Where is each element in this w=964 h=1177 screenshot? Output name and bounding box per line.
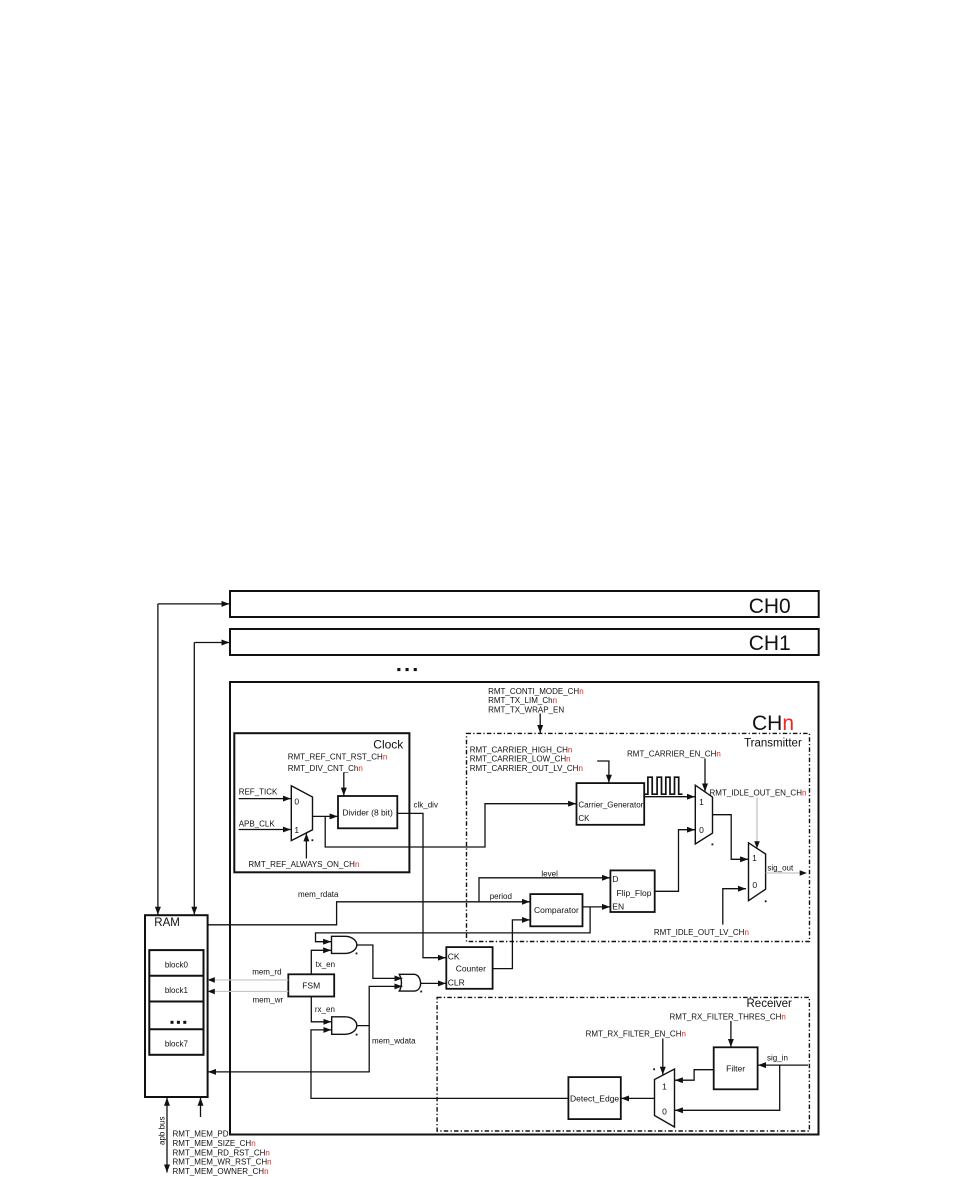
svg-text:CK: CK [448, 952, 460, 962]
svg-text:Detect_Edge: Detect_Edge [570, 1094, 619, 1104]
wire Flip_Flop out to carrier mux 0 [655, 830, 695, 892]
svg-text:FSM: FSM [302, 980, 320, 990]
wire Filter out to rx mux 1 [675, 1070, 714, 1081]
Counter box [446, 947, 492, 989]
wire idle out en (gray) into sig mux [754, 798, 760, 849]
RAM config arrow [200, 1098, 202, 1117]
wire div cnt config into Divider [343, 773, 345, 796]
Detect_Edge box [568, 1077, 620, 1119]
channel bar CH1 [230, 629, 819, 655]
wire tx AND out to OR gate [357, 945, 403, 978]
carrier mux [695, 785, 712, 844]
svg-text:RMT_MEM_SIZE_CHn: RMT_MEM_SIZE_CHn [173, 1139, 256, 1148]
wire carrier en into carrier mux [704, 759, 706, 792]
dot OR gate [420, 991, 422, 993]
dot tx AND gate [356, 953, 358, 955]
wire filter thres into Filter [730, 1021, 732, 1047]
Receiver dashed box [437, 997, 809, 1131]
svg-text:1: 1 [699, 797, 704, 807]
svg-text:tx_en: tx_en [316, 960, 336, 969]
svg-text:CH0: CH0 [749, 595, 791, 618]
wire Comparator out to Flip_Flop EN [583, 906, 611, 908]
svg-text:RMT_TX_LIM_Chn: RMT_TX_LIM_Chn [488, 696, 557, 705]
ellipsis in RAM [171, 1021, 187, 1024]
svg-text:Divider (8 bit): Divider (8 bit) [342, 807, 393, 817]
wire clk branch to Carrier CK [325, 804, 576, 847]
wire config into Transmitter [539, 714, 541, 734]
Filter box [714, 1047, 758, 1089]
svg-text:RAM: RAM [154, 917, 180, 929]
wire mem_wdata to RAM [208, 1026, 369, 1072]
svg-text:CLR: CLR [448, 978, 465, 988]
Comparator box [530, 894, 582, 926]
Transmitter dashed box [467, 733, 810, 941]
svg-text:Counter: Counter [456, 963, 486, 973]
rx AND gate [332, 1017, 357, 1035]
svg-text:1: 1 [294, 825, 299, 835]
wire APB_CLK [239, 829, 291, 831]
wire sig_out (gray) [766, 870, 807, 876]
svg-text:rx_en: rx_en [315, 1005, 335, 1014]
clock mux [291, 786, 312, 841]
svg-text:RMT_CARRIER_EN_CHn: RMT_CARRIER_EN_CHn [627, 750, 721, 759]
wire OR out to Counter CLR [420, 982, 446, 984]
wire level to Flip_Flop D [479, 878, 610, 902]
svg-text:1: 1 [662, 1081, 667, 1091]
svg-text:RMT_RX_FILTER_THRES_CHn: RMT_RX_FILTER_THRES_CHn [670, 1012, 786, 1021]
Carrier_Generator box [577, 783, 645, 825]
svg-text:mem_rdata: mem_rdata [298, 890, 339, 899]
dot rx AND gate [356, 1034, 358, 1036]
RAM block [145, 915, 208, 1097]
ellipsis between channels [397, 668, 417, 671]
svg-text:level: level [541, 869, 558, 878]
svg-text:0: 0 [662, 1106, 667, 1116]
svg-text:Carrier_Generator: Carrier_Generator [578, 801, 643, 810]
svg-text:RMT_CARRIER_LOW_CHn: RMT_CARRIER_LOW_CHn [470, 755, 571, 764]
rx mux [655, 1069, 675, 1127]
wire rx AND out to OR gate [357, 986, 403, 1025]
wire rx mux out to Detect_Edge [621, 1097, 654, 1099]
svg-text:CHn: CHn [752, 712, 794, 735]
dot rx mux [653, 1068, 655, 1070]
svg-text:Receiver: Receiver [747, 998, 793, 1010]
carrier waveform glyph [644, 777, 682, 794]
svg-text:RMT_CARRIER_OUT_LV_CHn: RMT_CARRIER_OUT_LV_CHn [470, 764, 583, 773]
dot sig mux [765, 900, 767, 902]
svg-text:RMT_RX_FILTER_EN_CHn: RMT_RX_FILTER_EN_CHn [586, 1030, 686, 1039]
svg-text:RMT_MEM_OWNER_CHn: RMT_MEM_OWNER_CHn [173, 1167, 269, 1176]
wire mem_wr (gray) [208, 989, 289, 995]
dot clock mux [312, 839, 314, 841]
wire RMT_REF_ALWAYS_ON to mux [305, 833, 307, 858]
FSM box [288, 974, 334, 996]
wire mem_rdata to Comparator [208, 902, 530, 925]
svg-text:period: period [490, 892, 512, 901]
Divider box [338, 796, 397, 828]
svg-text:RMT_CONTI_MODE_CHn: RMT_CONTI_MODE_CHn [488, 687, 584, 696]
OR gate [399, 974, 420, 991]
svg-text:CH1: CH1 [749, 632, 791, 655]
apb bus double arrow [158, 1098, 168, 1173]
svg-text:mem_wr: mem_wr [253, 995, 284, 1004]
wire Comparator out feedback to tx AND gate [316, 907, 591, 942]
svg-text:block0: block0 [165, 960, 189, 969]
svg-text:Clock: Clock [373, 737, 404, 751]
svg-text:RMT_CARRIER_HIGH_CHn: RMT_CARRIER_HIGH_CHn [470, 745, 573, 754]
RAM block rows [149, 950, 203, 1055]
svg-text:0: 0 [294, 797, 299, 807]
svg-text:RMT_REF_ALWAYS_ON_CHn: RMT_REF_ALWAYS_ON_CHn [248, 860, 359, 869]
wire mem_rd (gray) [208, 977, 289, 983]
wire sig_in to Filter [758, 1064, 808, 1066]
wire rx_en to AND gate [311, 997, 331, 1022]
svg-text:Comparator: Comparator [534, 905, 579, 915]
svg-text:Flip_Flop: Flip_Flop [617, 888, 652, 898]
svg-text:CK: CK [578, 814, 590, 823]
wire Carrier_Generator out to carrier mux 1 [644, 796, 695, 798]
wire idle out lv to sig mux 0 [723, 889, 746, 925]
svg-text:apb bus: apb bus [158, 1117, 167, 1145]
wire carrier mux out to sig mux 1 [713, 815, 749, 860]
tx AND gate [332, 936, 357, 953]
svg-text:Filter: Filter [726, 1063, 745, 1073]
svg-text:RMT_DIV_CNT_Chn: RMT_DIV_CNT_Chn [288, 764, 363, 773]
svg-text:RMT_MEM_RD_RST_CHn: RMT_MEM_RD_RST_CHn [173, 1148, 270, 1157]
svg-text:block7: block7 [165, 1040, 189, 1049]
svg-text:D: D [612, 874, 618, 884]
wire CH1 feed from RAM [194, 643, 229, 915]
channel bar CH0 [230, 591, 819, 618]
svg-text:RMT_MEM_WR_RST_CHn: RMT_MEM_WR_RST_CHn [173, 1158, 272, 1167]
svg-text:RMT_MEM_PD: RMT_MEM_PD [173, 1129, 229, 1138]
svg-text:REF_TICK: REF_TICK [239, 788, 278, 797]
svg-text:1: 1 [752, 853, 757, 863]
svg-text:mem_rd: mem_rd [252, 968, 281, 977]
svg-text:RMT_IDLE_OUT_LV_CHn: RMT_IDLE_OUT_LV_CHn [654, 928, 749, 937]
Flip_Flop box [610, 870, 654, 912]
dot carrier mux [712, 844, 714, 846]
wire filter en into rx mux [662, 1039, 664, 1075]
svg-text:RMT_IDLE_OUT_EN_CHn: RMT_IDLE_OUT_EN_CHn [710, 788, 807, 797]
channel block CHn [230, 682, 819, 1135]
Clock box [234, 733, 409, 872]
wire clk_div to Counter CK [397, 813, 446, 957]
wire tx_en to AND gate [311, 950, 331, 974]
wire sig_in branch to rx mux 0 [675, 1065, 780, 1110]
svg-text:mem_wdata: mem_wdata [372, 1036, 416, 1045]
wire clock mux out to Divider [313, 815, 338, 817]
wire Detect_Edge out to rx AND gate [311, 1030, 568, 1099]
svg-text:EN: EN [612, 901, 624, 911]
svg-text:sig_out: sig_out [767, 864, 794, 873]
wire REF_TICK [239, 798, 291, 800]
sig mux [749, 843, 766, 901]
wire CH0 feed from RAM [158, 604, 230, 915]
svg-text:Transmitter: Transmitter [744, 737, 802, 749]
svg-text:APB_CLK: APB_CLK [239, 819, 276, 828]
svg-text:RMT_TX_WRAP_EN: RMT_TX_WRAP_EN [488, 705, 564, 714]
svg-text:0: 0 [752, 880, 757, 890]
svg-text:0: 0 [699, 825, 704, 835]
svg-text:RMT_REF_CNT_RST_CHn: RMT_REF_CNT_RST_CHn [288, 753, 388, 762]
wire Counter out to Comparator [493, 920, 530, 969]
wire carrier config into Carrier_Generator [597, 761, 609, 783]
svg-text:clk_div: clk_div [414, 800, 438, 809]
svg-text:sig_in: sig_in [767, 1054, 788, 1063]
svg-text:block1: block1 [165, 986, 189, 995]
